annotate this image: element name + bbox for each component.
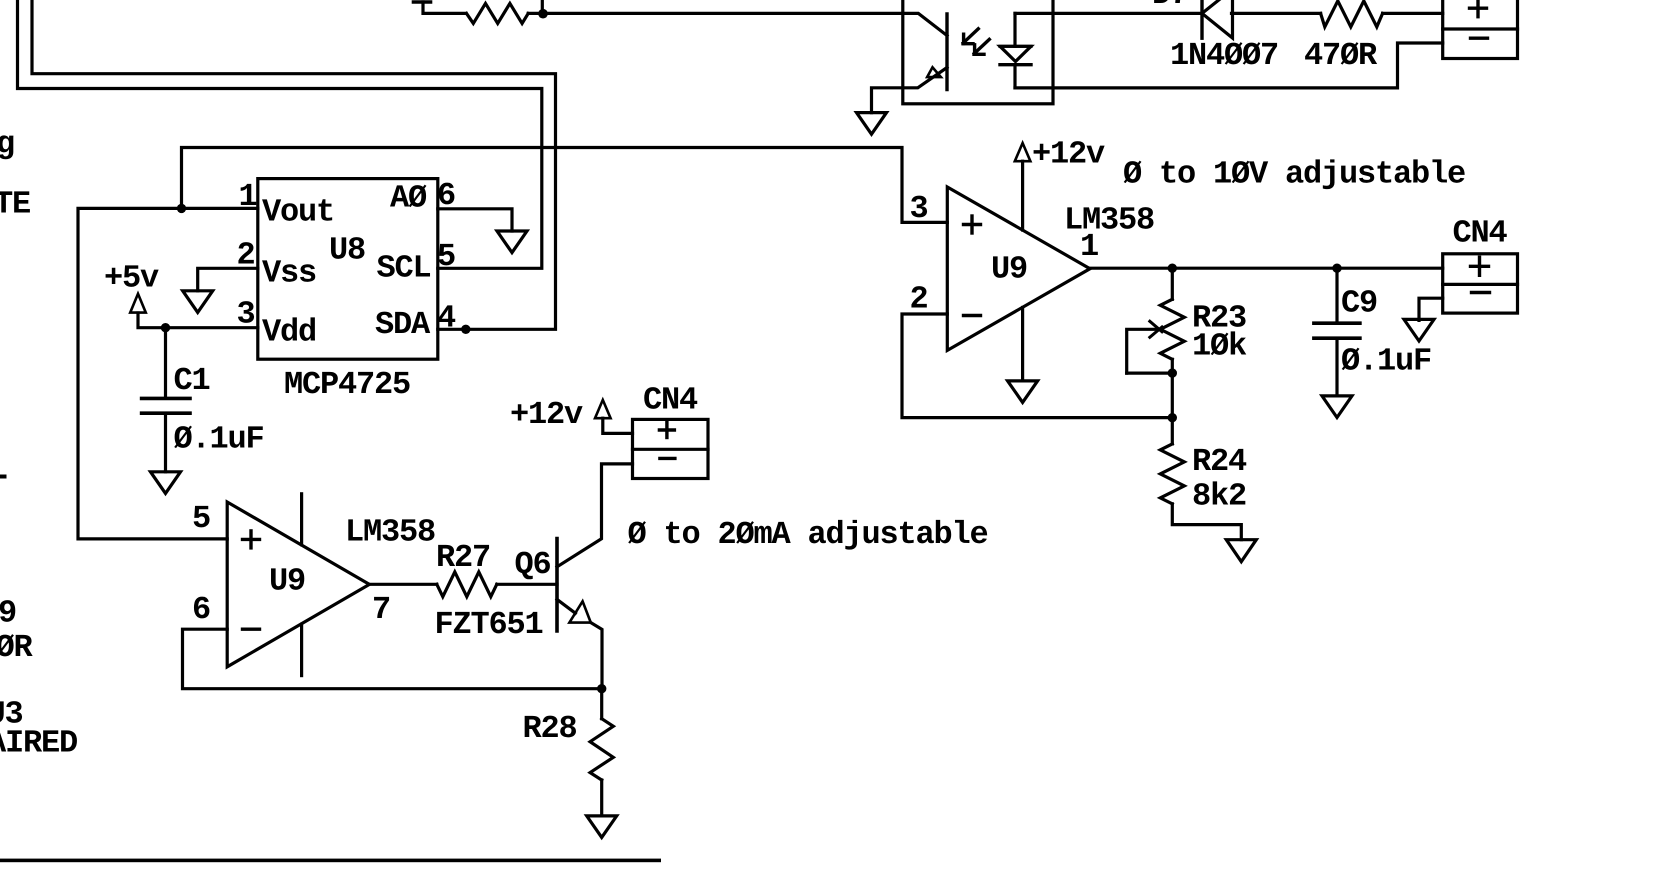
svg-text:Vss: Vss <box>262 255 316 292</box>
svg-text:Ø to 1ØV adjustable: Ø to 1ØV adjustable <box>1123 156 1465 193</box>
svg-text:7: 7 <box>372 591 390 628</box>
svg-text:1Øk: 1Øk <box>1192 328 1247 365</box>
svg-text:3: 3 <box>237 296 255 333</box>
svg-text:9: 9 <box>0 595 16 632</box>
svg-text:1N4ØØ7: 1N4ØØ7 <box>1170 37 1278 74</box>
svg-text:Vout: Vout <box>262 194 334 231</box>
svg-text:Ø.1uF: Ø.1uF <box>174 421 264 458</box>
svg-text:Ø.1uF: Ø.1uF <box>1341 343 1431 380</box>
svg-text:R28: R28 <box>523 710 577 747</box>
svg-text:U8: U8 <box>329 232 365 269</box>
svg-text:Vdd: Vdd <box>262 314 316 351</box>
svg-text:U9: U9 <box>269 563 305 600</box>
svg-text:AIRED: AIRED <box>0 725 77 762</box>
svg-text:+5v: +5v <box>104 260 159 297</box>
svg-text:4: 4 <box>437 300 456 337</box>
svg-text:TE: TE <box>0 186 30 223</box>
svg-text:1: 1 <box>239 178 257 215</box>
svg-text:LM358: LM358 <box>1064 202 1154 239</box>
svg-text:AØ: AØ <box>390 180 427 217</box>
svg-text:FZT651: FZT651 <box>435 606 543 643</box>
svg-text:SDA: SDA <box>375 306 431 343</box>
svg-text:CN4: CN4 <box>1453 215 1508 252</box>
svg-text:SCL: SCL <box>377 250 431 287</box>
svg-text:3: 3 <box>910 190 928 227</box>
svg-text:ØR: ØR <box>0 629 34 666</box>
svg-text:2: 2 <box>237 237 255 274</box>
svg-text:6: 6 <box>192 591 210 628</box>
svg-text:CN4: CN4 <box>643 382 698 419</box>
svg-text:5: 5 <box>437 238 455 275</box>
svg-text:R24: R24 <box>1192 443 1247 480</box>
svg-text:8k2: 8k2 <box>1192 478 1246 515</box>
svg-text:R27: R27 <box>436 539 490 576</box>
svg-text:Ø to 2ØmA adjustable: Ø to 2ØmA adjustable <box>628 516 988 553</box>
svg-text:5: 5 <box>192 500 210 537</box>
svg-text:Q6: Q6 <box>515 546 551 583</box>
svg-text:2: 2 <box>910 281 928 318</box>
svg-text:6: 6 <box>437 177 455 214</box>
svg-text:1: 1 <box>1080 228 1098 265</box>
svg-text:LM358: LM358 <box>345 514 435 551</box>
svg-text:U9: U9 <box>991 251 1027 288</box>
svg-text:C1: C1 <box>174 362 210 399</box>
svg-text:C9: C9 <box>1341 285 1377 322</box>
svg-text:+12v: +12v <box>510 396 583 433</box>
svg-text:MCP4725: MCP4725 <box>284 366 410 403</box>
svg-text:D7: D7 <box>1152 0 1188 13</box>
svg-text:+12v: +12v <box>1032 136 1105 173</box>
svg-text:g: g <box>0 126 14 163</box>
svg-text:47ØR: 47ØR <box>1304 37 1378 74</box>
